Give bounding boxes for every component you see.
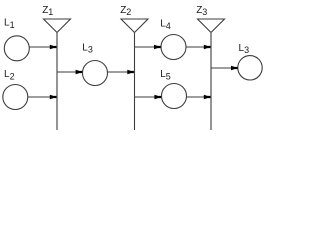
arrowhead into Z2 from L3 [127, 70, 134, 75]
wire L2 to Z1 [28, 96, 56, 98]
source L2 circle [3, 85, 28, 110]
arrowhead into Z1 from L1 [50, 45, 57, 50]
svg-text:L5: L5 [160, 69, 171, 81]
svg-text:Z1: Z1 [42, 5, 53, 17]
bus Z2 vertical line [134, 33, 136, 130]
wire L4 to Z3 [186, 46, 210, 48]
svg-text:L2: L2 [4, 69, 15, 81]
arrowhead into Z1 from L2 [50, 95, 57, 100]
wire Z3 to right L3 [211, 67, 237, 69]
svg-text:L3: L3 [239, 43, 250, 55]
antenna symbol Z3 [198, 19, 225, 33]
link L3 circle (between Z1 and Z2) [83, 61, 108, 86]
wire Z2 to L5 [135, 96, 161, 98]
link L5 circle (lower, between Z2 and Z3) [162, 84, 187, 109]
arrowhead into Z3 from L4 [204, 45, 211, 50]
arrowhead into right L3 [231, 66, 238, 71]
wire Z1 to L3 [57, 71, 82, 73]
link L4 circle (upper, between Z2 and Z3) [161, 35, 186, 60]
arrowhead into L3 [76, 70, 83, 75]
wire L5 to Z3 [187, 96, 211, 98]
bus Z3 vertical line [210, 33, 212, 130]
arrowhead into L5 [154, 95, 161, 100]
svg-text:L3: L3 [82, 42, 93, 54]
svg-text:L4: L4 [160, 19, 171, 31]
source L1 circle [4, 36, 29, 61]
load L3 circle (right of Z3) [238, 56, 262, 80]
antenna symbol Z2 [121, 19, 148, 33]
svg-text:L1: L1 [4, 18, 15, 30]
antenna symbol Z1 [44, 19, 71, 33]
svg-text:Z3: Z3 [196, 5, 207, 17]
wire L1 to Z1 [29, 46, 56, 48]
arrowhead into Z3 from L5 [204, 95, 211, 100]
arrowhead into L4 [154, 45, 161, 50]
wire Z2 to L4 [135, 46, 161, 48]
wire L3 to Z2 [108, 71, 134, 73]
svg-text:Z2: Z2 [120, 5, 131, 17]
bus Z1 vertical line [56, 33, 58, 130]
